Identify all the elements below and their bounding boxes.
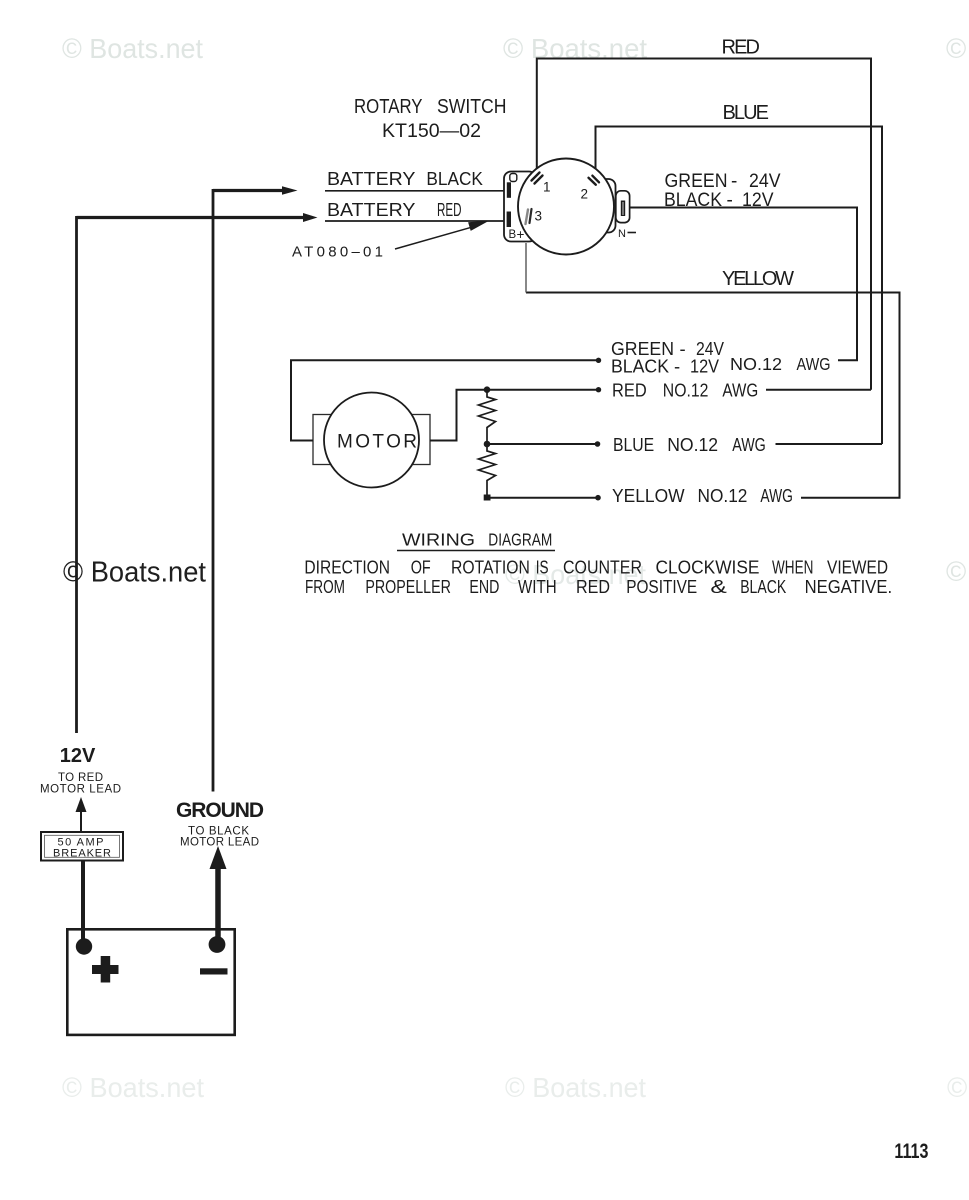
wire RED (pin1 to right bus) xyxy=(537,59,871,390)
arrow BATTERY RED feed xyxy=(77,213,318,222)
node red row end xyxy=(596,387,601,392)
svg-text:WHEN: WHEN xyxy=(772,558,813,578)
wire BLUE (pin2 to right bus) xyxy=(596,127,883,445)
wire GREEN/BLACK (N terminal to right bus) xyxy=(625,208,857,361)
svg-text:BLUE: BLUE xyxy=(613,435,654,455)
svg-text:©: © xyxy=(946,33,966,64)
svg-text:BLUE: BLUE xyxy=(723,102,770,124)
wire battery red lead-in xyxy=(325,220,507,222)
svg-text:NO.12: NO.12 xyxy=(698,486,748,506)
rotary switch SW1 xyxy=(504,159,636,255)
svg-text:N: N xyxy=(618,228,626,240)
svg-text:NEGATIVE.: NEGATIVE. xyxy=(805,577,893,597)
svg-text:BLACK: BLACK xyxy=(426,168,483,189)
svg-text:CLOCKWISE: CLOCKWISE xyxy=(656,558,760,578)
svg-text:YELLOW: YELLOW xyxy=(722,268,794,290)
motor M1 xyxy=(313,393,430,488)
svg-text:DIRECTION: DIRECTION xyxy=(304,558,390,578)
svg-text:2: 2 xyxy=(581,187,589,202)
svg-text:MOTOR LEAD: MOTOR LEAD xyxy=(40,784,121,796)
svg-text:© Boats.net: © Boats.net xyxy=(62,33,203,64)
svg-text:12V: 12V xyxy=(60,745,96,767)
svg-text:BREAKER: BREAKER xyxy=(53,848,111,860)
node junction bottom square xyxy=(484,495,491,501)
svg-text:3: 3 xyxy=(535,209,543,224)
wire battery red vertical xyxy=(75,216,78,733)
svg-text:© Boats.net: © Boats.net xyxy=(62,1072,204,1103)
svg-text:BATTERY: BATTERY xyxy=(327,168,416,189)
svg-text:© Boats.net: © Boats.net xyxy=(63,557,206,589)
svg-text:BLACK: BLACK xyxy=(611,356,670,377)
svg-text:OF: OF xyxy=(411,558,431,578)
svg-text:FROM: FROM xyxy=(305,577,345,597)
svg-text:YELLOW: YELLOW xyxy=(612,486,685,506)
svg-text:RED: RED xyxy=(576,577,610,597)
svg-text:WITH: WITH xyxy=(518,577,557,597)
wire motor red row xyxy=(430,390,598,441)
svg-text:24V: 24V xyxy=(749,171,781,192)
svg-text:ROTARY: ROTARY xyxy=(354,96,423,118)
svg-text:NO.12: NO.12 xyxy=(730,354,782,374)
node yellow row end xyxy=(595,495,601,501)
svg-text:-: - xyxy=(674,356,680,377)
svg-text:VIEWED: VIEWED xyxy=(827,558,888,578)
breaker CB1 50 AMP xyxy=(41,832,123,861)
svg-text:RED: RED xyxy=(722,37,761,59)
svg-text:GROUND: GROUND xyxy=(176,799,264,822)
svg-text:GREEN: GREEN xyxy=(665,171,728,192)
svg-text:AT080–01: AT080–01 xyxy=(292,244,383,261)
svg-text:BATTERY: BATTERY xyxy=(327,199,416,220)
wire motor green/black row xyxy=(291,360,598,440)
svg-text:MOTOR: MOTOR xyxy=(337,432,417,453)
resistor R2 xyxy=(479,444,496,498)
arrow BATTERY BLACK feed xyxy=(213,186,298,195)
pin 3 terminal xyxy=(526,209,532,224)
svg-text:1113: 1113 xyxy=(894,1140,928,1163)
svg-text:AWG: AWG xyxy=(760,486,793,506)
pin 1 terminal xyxy=(532,173,543,184)
node junction middle xyxy=(484,441,491,448)
svg-text:©: © xyxy=(947,1072,967,1103)
motor body xyxy=(324,393,419,488)
svg-text:© Boats.net: © Boats.net xyxy=(505,1072,646,1103)
svg-text:COUNTER: COUNTER xyxy=(563,558,642,578)
svg-text:RED: RED xyxy=(612,381,647,401)
svg-text:NO.12: NO.12 xyxy=(663,381,709,401)
pin 2 terminal xyxy=(589,176,600,185)
svg-text:NO.12: NO.12 xyxy=(667,435,718,455)
svg-text:KT150—02: KT150—02 xyxy=(382,121,481,142)
svg-text:B: B xyxy=(509,229,517,241)
svg-text:AWG: AWG xyxy=(722,381,758,401)
node battery positive terminal xyxy=(76,938,92,954)
svg-text:IS: IS xyxy=(536,558,549,578)
svg-text:BLACK: BLACK xyxy=(664,190,722,211)
wire blue row xyxy=(487,443,598,445)
svg-text:ROTATION: ROTATION xyxy=(451,558,530,578)
svg-text:PROPELLER: PROPELLER xyxy=(365,577,451,597)
battery minus symbol xyxy=(200,968,228,974)
arrow GROUND up xyxy=(210,846,227,945)
svg-text:©: © xyxy=(946,556,966,587)
svg-text:TO RED: TO RED xyxy=(58,772,103,784)
svg-text:DIAGRAM: DIAGRAM xyxy=(488,530,552,550)
motor frame xyxy=(313,415,430,465)
N terminal bar xyxy=(621,201,625,217)
wire battery black lead-in xyxy=(325,190,506,192)
right connector bracket xyxy=(596,179,616,233)
N terminal housing xyxy=(616,191,630,223)
node junction top xyxy=(484,386,491,393)
svg-text:AWG: AWG xyxy=(797,354,831,374)
svg-text:AWG: AWG xyxy=(732,435,766,455)
svg-text:-: - xyxy=(727,190,733,211)
wire breaker to battery xyxy=(81,861,85,948)
svg-text:WIRING: WIRING xyxy=(402,530,475,550)
bracket notch xyxy=(510,174,517,182)
left connector bracket xyxy=(504,172,536,242)
pointer AT080-01 xyxy=(395,221,490,250)
wire B terminal drop (gray) xyxy=(525,243,527,293)
wire into battery negative xyxy=(215,928,221,945)
svg-text:12V: 12V xyxy=(690,356,720,377)
svg-text:1: 1 xyxy=(543,180,551,195)
battery plus symbol xyxy=(92,956,119,983)
svg-text:SWITCH: SWITCH xyxy=(437,96,507,118)
svg-text:+: + xyxy=(517,227,525,242)
svg-text:12V: 12V xyxy=(742,190,774,211)
svg-text:&: & xyxy=(710,577,727,597)
svg-text:-: - xyxy=(731,171,737,192)
wire yellow row xyxy=(487,497,598,499)
resistor R1 xyxy=(479,390,496,444)
bracket terminal lower xyxy=(507,212,511,228)
svg-text:RED: RED xyxy=(437,199,462,220)
wire YELLOW (B terminal to right bus) xyxy=(526,293,900,498)
arrow 12V up xyxy=(76,797,87,833)
svg-text:-: - xyxy=(680,338,686,359)
switch body circle xyxy=(518,159,614,255)
svg-text:END: END xyxy=(469,577,499,597)
wire into battery positive xyxy=(81,928,85,947)
svg-text:POSITIVE: POSITIVE xyxy=(626,577,697,597)
node battery negative terminal xyxy=(209,936,226,953)
wire red row right stub xyxy=(766,389,871,391)
wire battery black vertical xyxy=(212,189,215,792)
title ROTARY SWITCH KT150-02 xyxy=(354,96,507,142)
node blue row end xyxy=(595,441,601,447)
battery BT1 xyxy=(67,929,234,1035)
svg-text:BLACK: BLACK xyxy=(740,577,786,597)
bracket terminal upper xyxy=(507,182,511,198)
svg-text:MOTOR LEAD: MOTOR LEAD xyxy=(180,837,259,849)
wire blue row right stub xyxy=(776,443,883,445)
node green row end xyxy=(596,358,601,363)
